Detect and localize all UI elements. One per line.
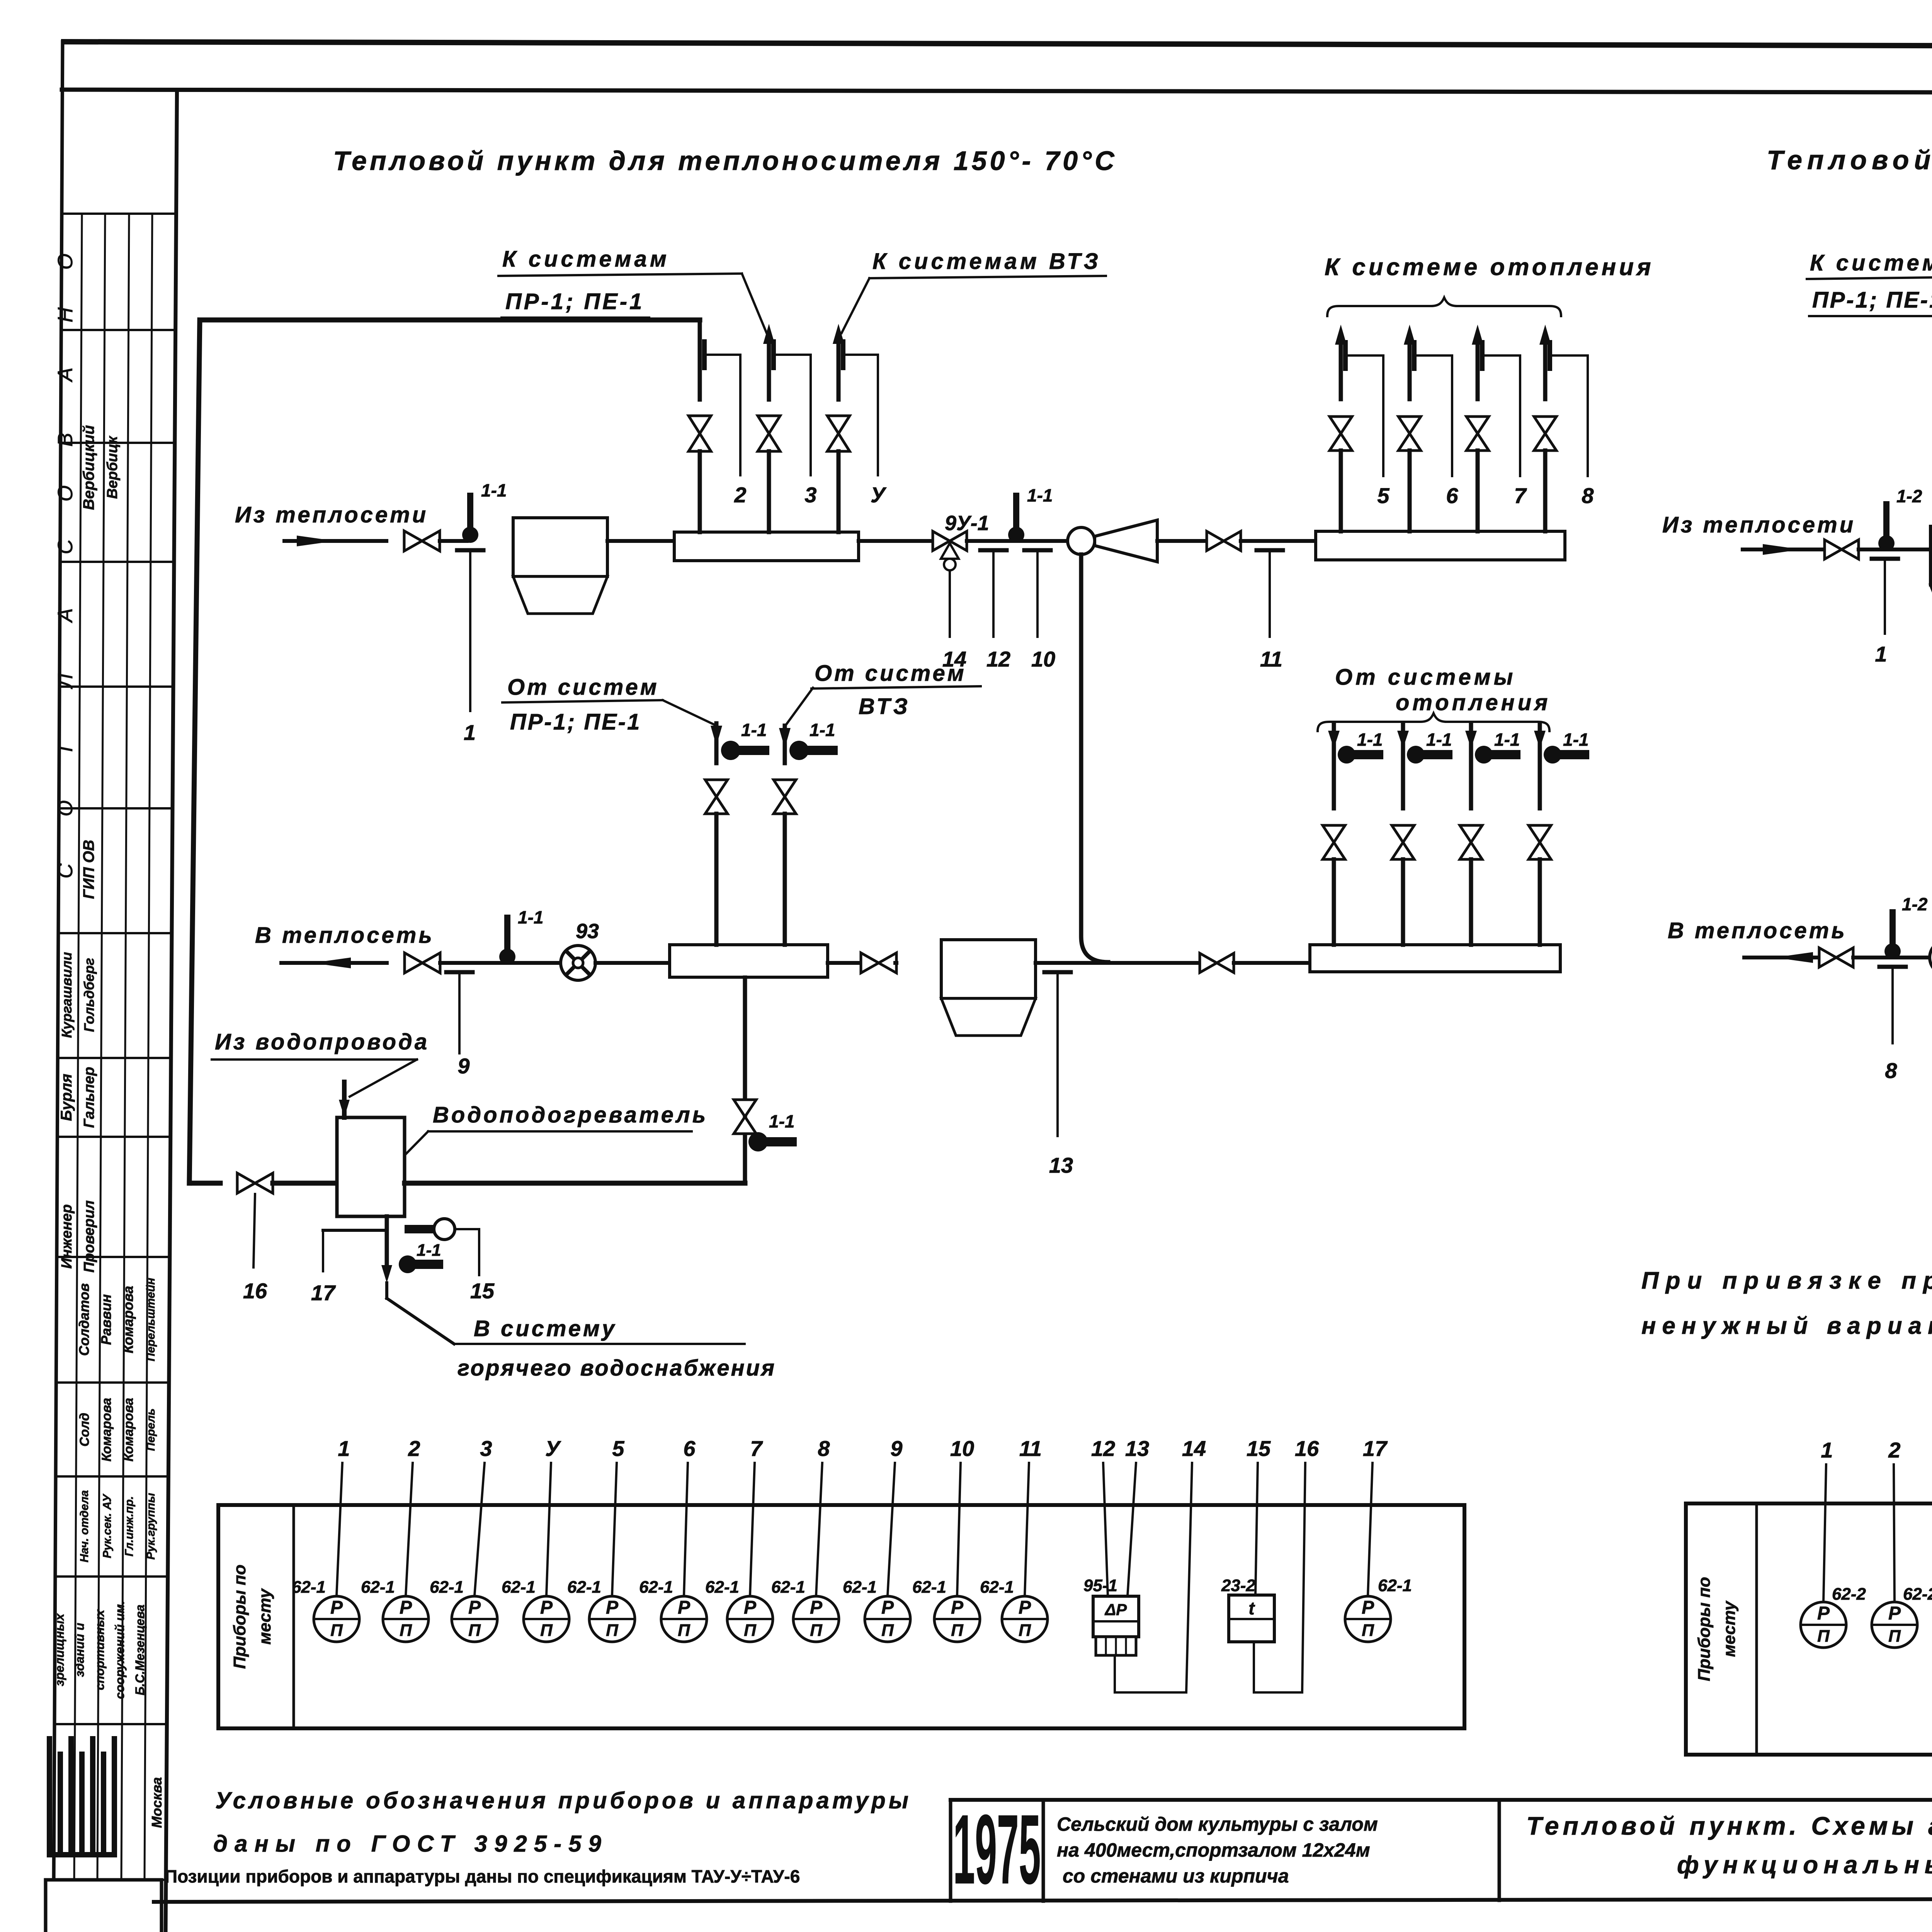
svg-text:Из теплосети: Из теплосети — [1662, 512, 1855, 537]
svg-text:Тепловой пункт для теплонос: Тепловой пункт для теплоносителя 150°- 7… — [333, 146, 1117, 176]
svg-text:1-1: 1-1 — [481, 480, 507, 500]
valve 1 on supply inlet — [404, 531, 440, 551]
hot water outlet drop — [385, 1216, 389, 1273]
return riser x3452 — [1332, 723, 1336, 808]
right instrument panel box — [1686, 1503, 1932, 1755]
valve on return outlet — [405, 953, 440, 973]
svg-text:14: 14 — [1182, 1436, 1206, 1461]
svg-text:1-1: 1-1 — [417, 1241, 441, 1260]
return riser from PR-1 PE-1 systems — [714, 723, 719, 763]
svg-text:Из теплосети: Из теплосети — [235, 502, 428, 527]
svg-text:ВТЗ: ВТЗ — [859, 694, 911, 719]
svg-text:Кургашвили: Кургашвили — [59, 952, 75, 1038]
svg-text:В: В — [54, 433, 77, 447]
svg-text:В систему: В систему — [474, 1316, 617, 1341]
svg-text:Бурля: Бурля — [58, 1074, 75, 1121]
svg-text:Инженер: Инженер — [59, 1204, 75, 1269]
return manifold 1 (from PR/VTZ systems) — [670, 945, 828, 977]
shut-off valve before heating manifold — [1207, 531, 1241, 551]
elevator outlet drop pipe — [1081, 554, 1108, 962]
svg-text:Б.С.Мезенцева: Б.С.Мезенцева — [133, 1605, 147, 1696]
svg-text:П: П — [468, 1621, 481, 1640]
svg-text:3: 3 — [804, 483, 816, 507]
svg-text:на 400мест,спортзалом 12х24м: на 400мест,спортзалом 12х24м — [1057, 1839, 1370, 1861]
svg-text:П: П — [606, 1621, 619, 1640]
svg-text:Условные обозначения прибо: Условные обозначения приборов и аппарату… — [215, 1787, 912, 1813]
valve before heating return manifold — [1200, 953, 1234, 973]
return riser x3985 — [1538, 723, 1542, 808]
svg-text:Перельштейн: Перельштейн — [145, 1278, 157, 1361]
svg-text:Р: Р — [881, 1597, 894, 1618]
svg-text:1-1: 1-1 — [741, 720, 767, 740]
svg-text:1: 1 — [338, 1436, 350, 1461]
sheet outer top border — [64, 42, 1932, 47]
thermometer 1-1 — [1544, 746, 1561, 764]
svg-text:О: О — [54, 253, 77, 270]
svg-text:8: 8 — [1582, 483, 1594, 508]
left instrument panel box — [218, 1505, 1464, 1728]
thermometer 1-1 on VTZ return riser — [789, 741, 809, 760]
svg-text:5: 5 — [1377, 483, 1389, 508]
svg-text:11: 11 — [1019, 1436, 1042, 1461]
svg-text:Р: Р — [1019, 1597, 1031, 1618]
local instrument 62-1 (5) — [589, 1596, 635, 1642]
heating return manifold (left) — [1310, 945, 1560, 972]
svg-text:1: 1 — [1821, 1438, 1833, 1462]
thermometer 1-1 — [1338, 746, 1355, 764]
local instrument 62-1 (17) — [1345, 1596, 1391, 1642]
svg-text:П: П — [540, 1621, 553, 1640]
svg-text:Рук.группы: Рук.группы — [145, 1493, 157, 1560]
local instrument 62-1 (10) — [934, 1596, 980, 1642]
svg-text:Р: Р — [540, 1597, 553, 1618]
svg-text:Солдатов: Солдатов — [76, 1283, 92, 1356]
sampling flag + tag 2 — [702, 339, 707, 370]
svg-text:1-2: 1-2 — [1896, 486, 1922, 506]
svg-text:62-1: 62-1 — [771, 1578, 805, 1597]
svg-text:62-1: 62-1 — [705, 1578, 739, 1597]
svg-text:9У-1: 9У-1 — [945, 512, 989, 535]
svg-text:62-1: 62-1 — [912, 1578, 946, 1597]
svg-text:П: П — [678, 1621, 690, 1640]
local instrument 62-1 (9) — [865, 1596, 910, 1642]
riser heater to return manifold 1 — [743, 978, 747, 1183]
svg-text:10: 10 — [1031, 647, 1055, 671]
svg-text:2: 2 — [1888, 1438, 1900, 1462]
svg-text:горячего водоснабжения: горячего водоснабжения — [457, 1355, 776, 1381]
thermometer 1-1 — [1475, 746, 1493, 764]
brace over heating risers (left supply) — [1327, 298, 1561, 316]
riser from top run into manifold 1 with valve — [698, 320, 702, 400]
thermowell pos.10 — [1024, 548, 1051, 553]
svg-text:Тепловой пункт. Схемы авто: Тепловой пункт. Схемы автоматизации — [1526, 1811, 1932, 1840]
svg-text:отопления: отопления — [1396, 690, 1551, 715]
svg-text:9: 9 — [890, 1436, 902, 1461]
mud strainer on return — [941, 940, 1036, 998]
return pipe to network — [281, 961, 387, 965]
svg-text:Комарова: Комарова — [99, 1398, 114, 1462]
valve on heater riser — [734, 1100, 756, 1134]
thermowell pos.9 — [446, 970, 473, 975]
svg-text:62-1: 62-1 — [843, 1578, 877, 1597]
svg-text:Р: Р — [330, 1597, 343, 1618]
thermometer pos.15 on heater — [405, 1225, 435, 1233]
svg-text:ГИП ОВ: ГИП ОВ — [80, 840, 97, 899]
svg-text:сооружений им.: сооружений им. — [113, 1601, 127, 1699]
svg-text:К системам ВТЗ: К системам ВТЗ — [872, 249, 1101, 274]
svg-text:12: 12 — [1091, 1436, 1115, 1461]
svg-text:даны по ГОСТ 3925-59: даны по ГОСТ 3925-59 — [213, 1831, 608, 1857]
title block frame — [951, 1798, 1932, 1802]
svg-text:ПР-1; ПЕ-1: ПР-1; ПЕ-1 — [1812, 287, 1932, 313]
svg-text:В теплосеть: В теплосеть — [255, 923, 434, 948]
svg-text:Р: Р — [400, 1597, 412, 1618]
svg-text:Р: Р — [951, 1597, 964, 1618]
thermometer 1-1 — [1407, 746, 1425, 764]
local instrument 62-2 (2) — [1872, 1602, 1917, 1648]
bottom run of hot-water circuit — [189, 1181, 220, 1186]
svg-text:11: 11 — [1260, 647, 1282, 671]
return line manifold1 to heating return manifold — [828, 961, 861, 965]
thermowell pos.1 (right) — [1872, 557, 1898, 561]
thermowell pos.1 on supply — [457, 548, 483, 553]
svg-text:О: О — [54, 800, 77, 816]
thermometer 1-1 on PR return riser — [721, 741, 740, 760]
svg-text:17: 17 — [1363, 1436, 1388, 1461]
flow meter 93 on return — [561, 946, 595, 980]
svg-text:ненужный вариант.: ненужный вариант. — [1641, 1313, 1932, 1339]
svg-text:Гл.инж.пр.: Гл.инж.пр. — [123, 1496, 136, 1556]
svg-text:7: 7 — [750, 1436, 763, 1461]
svg-text:От систем: От систем — [815, 661, 966, 686]
svg-text:Нач. отдела: Нач. отдела — [78, 1490, 91, 1563]
svg-text:П: П — [1817, 1627, 1830, 1646]
svg-text:1-1: 1-1 — [1426, 730, 1452, 750]
flow meter 93 (right) — [1930, 940, 1932, 975]
svg-text:П: П — [330, 1621, 343, 1640]
svg-text:зрелищных: зрелищных — [53, 1613, 66, 1686]
local instrument 62-1 (8) — [793, 1596, 839, 1642]
mud strainer (right supply) — [1930, 526, 1932, 585]
svg-text:6: 6 — [683, 1436, 696, 1461]
svg-text:Р: Р — [678, 1597, 690, 1618]
svg-text:Сельский дом культуры с залом: Сельский дом культуры с залом — [1057, 1813, 1378, 1835]
svg-text:9: 9 — [457, 1054, 469, 1078]
thermowell pos.17 — [323, 1229, 387, 1232]
right supply pipe — [1743, 548, 1825, 551]
svg-text:62-1: 62-1 — [980, 1578, 1014, 1597]
riser 6 — [1408, 337, 1412, 399]
svg-text:62-1: 62-1 — [361, 1578, 395, 1597]
stamp institute logo — [47, 1739, 52, 1855]
supply pipe from network — [284, 539, 386, 543]
thermowell pos.8 — [1879, 965, 1906, 969]
local instrument 62-1 (1) — [314, 1596, 359, 1642]
svg-text:t: t — [1248, 1598, 1255, 1618]
svg-text:От систем: От систем — [507, 675, 659, 700]
valve on right return — [1819, 948, 1853, 967]
svg-text:Приборы по: Приборы по — [1695, 1577, 1714, 1681]
riser 7 — [1476, 337, 1480, 399]
svg-text:93: 93 — [576, 920, 599, 943]
svg-text:8: 8 — [1885, 1058, 1897, 1083]
svg-text:У: У — [545, 1436, 561, 1461]
svg-text:Р: Р — [606, 1597, 619, 1618]
svg-text:Р: Р — [1362, 1597, 1374, 1618]
supply manifold 1 (to PR/VTZ systems) — [674, 532, 859, 561]
thermowell pos.12 — [980, 548, 1007, 553]
sampling flag + tag 3 — [771, 339, 776, 370]
3-way regulating valve 9U-1 — [933, 531, 967, 551]
svg-text:А: А — [54, 608, 77, 623]
svg-text:2: 2 — [408, 1436, 420, 1461]
thermowell pos.11 — [1257, 548, 1283, 553]
title block year 1975 — [953, 1794, 1041, 1905]
svg-text:месту: месту — [1720, 1600, 1739, 1657]
local instrument 62-1 (7) — [727, 1596, 773, 1642]
svg-text:При привязке проекта выч: При привязке проекта вычеркнуть — [1641, 1267, 1932, 1294]
svg-text:зданий и: зданий и — [73, 1623, 87, 1677]
svg-text:К системам: К системам — [502, 247, 670, 272]
svg-text:Р: Р — [810, 1597, 823, 1618]
stamp bottom empty box — [46, 1880, 162, 1932]
svg-text:Солд: Солд — [77, 1413, 92, 1447]
local instrument 62-1 (6) — [661, 1596, 707, 1642]
svg-text:спортивных: спортивных — [93, 1609, 107, 1690]
svg-text:62-1: 62-1 — [292, 1578, 326, 1597]
svg-text:П: П — [1362, 1621, 1374, 1640]
svg-text:Гальпер: Гальпер — [81, 1067, 97, 1128]
svg-text:месту: месту — [255, 1588, 274, 1645]
svg-text:2: 2 — [734, 483, 746, 507]
local instrument 62-1 (3) — [452, 1596, 497, 1642]
svg-text:А: А — [54, 367, 77, 383]
supply line manifold1 to 3-way valve — [859, 539, 933, 543]
mud strainer on supply — [513, 518, 607, 577]
supply line to elevator — [967, 539, 1068, 543]
svg-text:П: П — [400, 1621, 412, 1640]
svg-text:95-1: 95-1 — [1083, 1576, 1117, 1595]
svg-text:В теплосеть: В теплосеть — [1668, 918, 1847, 943]
svg-text:Позиции приборов и аппаратур: Позиции приборов и аппаратуры даны по сп… — [165, 1866, 800, 1886]
svg-text:Из водопровода: Из водопровода — [215, 1029, 429, 1054]
riser 2 (to systems PR-1 PE-1) — [767, 336, 771, 400]
local instrument 62-2 (1) — [1801, 1602, 1846, 1648]
thermometer 1-1 below heater — [399, 1255, 417, 1273]
svg-text:1-1: 1-1 — [518, 907, 543, 927]
svg-text:62-1: 62-1 — [502, 1578, 536, 1597]
svg-text:Рук.сек. АУ: Рук.сек. АУ — [101, 1493, 114, 1558]
svg-text:1-1: 1-1 — [1563, 730, 1588, 750]
svg-text:62-2: 62-2 — [1903, 1585, 1932, 1604]
svg-text:ПР-1; ПЕ-1: ПР-1; ПЕ-1 — [510, 709, 641, 735]
svg-text:Комарова: Комарова — [121, 1398, 136, 1462]
svg-text:1-1: 1-1 — [1357, 730, 1383, 750]
stamp table grid — [62, 213, 176, 215]
riser 3 (to systems VTZ) — [837, 336, 841, 400]
svg-text:Р: Р — [744, 1597, 757, 1618]
svg-text:62-1: 62-1 — [1378, 1576, 1412, 1595]
cold water inlet arrow — [342, 1082, 347, 1117]
svg-text:62-1: 62-1 — [639, 1578, 673, 1597]
riser 5 — [1339, 337, 1343, 399]
svg-text:8: 8 — [818, 1436, 830, 1461]
svg-text:К системе отопления: К системе отопления — [1325, 254, 1654, 281]
svg-text:Л: Л — [54, 673, 77, 689]
svg-text:Р: Р — [468, 1597, 481, 1618]
svg-text:1975: 1975 — [953, 1794, 1041, 1905]
svg-text:23-2: 23-2 — [1221, 1576, 1256, 1595]
svg-text:С: С — [54, 539, 77, 554]
thermometer t 1-1 after 3-way — [1008, 527, 1024, 543]
svg-text:От системы: От системы — [1335, 665, 1516, 690]
inner frame top line — [62, 90, 1932, 94]
svg-text:5: 5 — [612, 1436, 624, 1461]
svg-text:6: 6 — [1446, 483, 1458, 508]
svg-text:13: 13 — [1049, 1153, 1073, 1177]
hot-water circuit pipe: top run and left drop — [200, 318, 700, 323]
svg-text:функциональные: функциональные — [1677, 1851, 1932, 1879]
svg-text:Гольдберг: Гольдберг — [81, 958, 97, 1032]
thermometer t 1-2 on return — [1884, 943, 1901, 959]
svg-text:1-1: 1-1 — [1027, 485, 1053, 505]
water heater — [337, 1117, 405, 1216]
valve on right supply — [1825, 540, 1859, 559]
svg-text:П: П — [1888, 1627, 1901, 1646]
svg-text:П: П — [881, 1621, 894, 1640]
svg-text:П: П — [951, 1621, 964, 1640]
thermometer t 1-1 on supply — [462, 527, 478, 543]
local instrument 62-1 (2) — [383, 1596, 429, 1642]
svg-text:Тепловой пункт для теплонос: Тепловой пункт для теплоносителя 95°- 70… — [1767, 145, 1932, 175]
svg-text:1: 1 — [464, 720, 476, 745]
brace over heating return risers (left) — [1318, 713, 1549, 731]
svg-text:Вербицк: Вербицк — [104, 435, 121, 499]
svg-text:1: 1 — [1875, 642, 1887, 666]
svg-text:62-1: 62-1 — [430, 1578, 464, 1597]
svg-text:Р: Р — [1888, 1603, 1901, 1624]
elevator — [1068, 527, 1095, 554]
sampling flag + tag 4 — [841, 339, 845, 370]
svg-text:К системам: К системам — [1810, 250, 1932, 276]
svg-text:12: 12 — [986, 647, 1010, 671]
heater outlet to return riser — [405, 1181, 745, 1186]
svg-text:16: 16 — [1295, 1436, 1319, 1461]
svg-text:15: 15 — [1247, 1436, 1271, 1461]
svg-text:Вербицкий: Вербицкий — [80, 425, 97, 510]
svg-text:П: П — [1019, 1621, 1031, 1640]
svg-text:Москва: Москва — [149, 1777, 165, 1828]
svg-text:1-1: 1-1 — [810, 720, 835, 740]
svg-text:1-2: 1-2 — [1902, 894, 1928, 914]
svg-text:3: 3 — [480, 1436, 492, 1461]
supply line elevator to manifold 2 — [1157, 539, 1207, 543]
svg-text:О: О — [54, 485, 77, 502]
svg-text:16: 16 — [243, 1279, 267, 1303]
svg-text:13: 13 — [1125, 1436, 1149, 1461]
svg-text:ПР-1; ПЕ-1: ПР-1; ПЕ-1 — [505, 289, 644, 314]
stamp column right edge / drawing area left edge — [165, 90, 177, 1932]
svg-text:Раввин: Раввин — [98, 1294, 114, 1345]
return riser x3631 — [1401, 723, 1405, 808]
sheet outer left border — [53, 42, 63, 1932]
svg-text:62-1: 62-1 — [567, 1578, 601, 1597]
svg-text:Г: Г — [54, 739, 77, 752]
heating supply manifold (left scheme) — [1316, 531, 1565, 560]
thermometer 1-1 on heater riser — [748, 1132, 768, 1151]
svg-text:15: 15 — [470, 1279, 495, 1303]
svg-text:Водоподогреватель: Водоподогреватель — [433, 1102, 708, 1128]
local instrument 62-1 (У) — [524, 1596, 569, 1642]
svg-text:Приборы по: Приборы по — [230, 1565, 249, 1669]
svg-text:П: П — [810, 1621, 823, 1640]
svg-text:Комарова: Комарова — [120, 1286, 136, 1354]
svg-text:Р: Р — [1817, 1603, 1830, 1624]
svg-text:Н: Н — [54, 307, 77, 323]
thermowell pos.13 — [1044, 970, 1071, 975]
svg-text:17: 17 — [311, 1281, 336, 1305]
thermometer t 1-1 on return — [499, 949, 515, 965]
svg-text:7: 7 — [1514, 483, 1527, 508]
valve pos.16 — [237, 1173, 273, 1193]
svg-text:1-1: 1-1 — [769, 1111, 794, 1131]
svg-text:10: 10 — [950, 1436, 974, 1461]
svg-text:ΔР: ΔР — [1104, 1600, 1127, 1619]
right return pipe — [1744, 956, 1819, 959]
riser 8 — [1543, 337, 1548, 399]
svg-text:Проверил: Проверил — [81, 1201, 97, 1273]
svg-text:со стенами из кирпича: со стенами из кирпича — [1063, 1865, 1289, 1887]
valve after return manifold 1 — [861, 953, 896, 973]
thermometer t 1-2 — [1878, 535, 1895, 551]
return riser x3807 — [1469, 723, 1473, 808]
svg-text:Перель: Перель — [145, 1408, 157, 1451]
svg-text:У: У — [871, 483, 887, 507]
svg-text:С: С — [54, 863, 77, 879]
svg-text:1-1: 1-1 — [1494, 730, 1520, 750]
local instrument 62-1 (11) — [1002, 1596, 1048, 1642]
svg-text:62-2: 62-2 — [1832, 1585, 1866, 1604]
return riser from VTZ systems — [783, 726, 787, 763]
svg-text:П: П — [744, 1621, 757, 1640]
